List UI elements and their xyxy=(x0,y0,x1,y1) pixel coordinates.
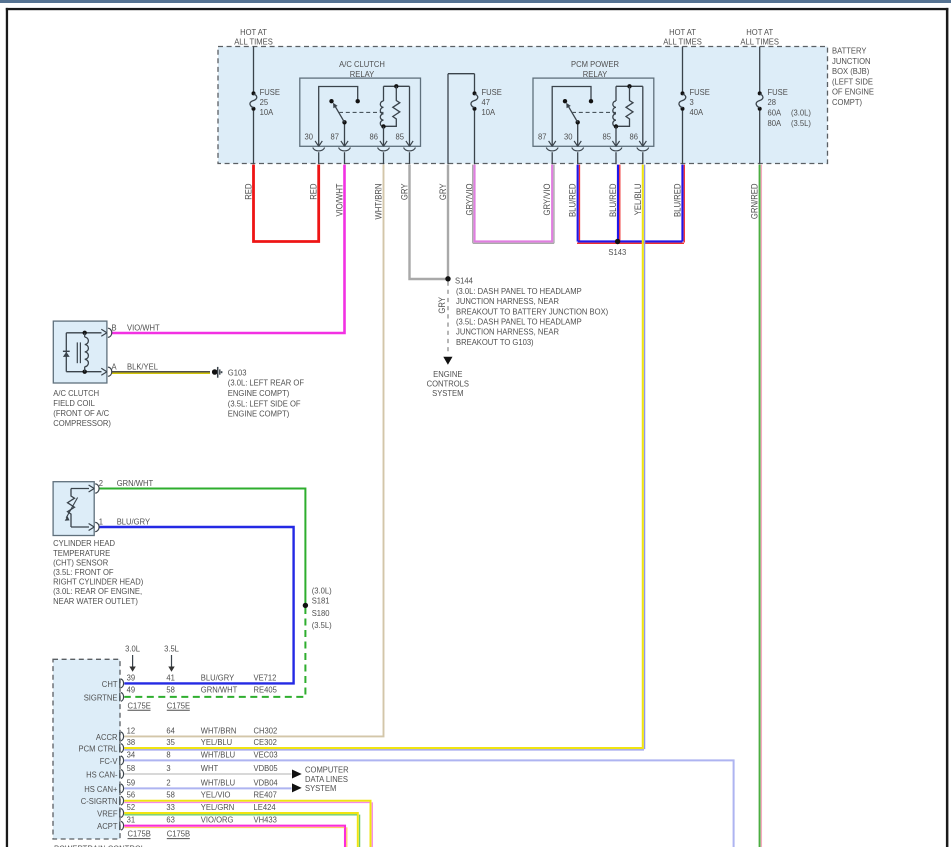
A/C relay pin 85 xyxy=(396,132,416,164)
svg-text:(LEFT SIDE: (LEFT SIDE xyxy=(832,77,873,86)
CHT pin 2 xyxy=(89,479,154,493)
svg-text:47: 47 xyxy=(482,98,491,107)
svg-text:BLU/RED: BLU/RED xyxy=(672,184,683,217)
svg-text:10A: 10A xyxy=(260,108,274,117)
svg-text:S181: S181 xyxy=(312,596,330,605)
wire label VIO/WHT at x=344.5 xyxy=(334,184,345,217)
3.0L / 3.5L column headers xyxy=(125,644,179,671)
svg-text:G103: G103 xyxy=(228,368,247,377)
svg-text:BATTERY: BATTERY xyxy=(832,46,867,55)
wire label RED at x=318.7 xyxy=(308,184,319,200)
svg-text:SYSTEM: SYSTEM xyxy=(432,389,463,398)
wire WHT/BLU: PCM HS CAN+ to computer data lines xyxy=(124,787,291,789)
PCM relay switch (pins 87/30) xyxy=(552,87,593,147)
PCM pin row VREF (52/33 YEL/GRN LE424) xyxy=(97,803,276,819)
svg-text:FUSE: FUSE xyxy=(690,88,710,97)
svg-text:YEL/GRN: YEL/GRN xyxy=(201,803,235,812)
svg-text:RELAY: RELAY xyxy=(350,70,375,79)
svg-text:ENGINE: ENGINE xyxy=(433,370,462,379)
svg-text:BLU/RED: BLU/RED xyxy=(567,184,578,217)
wire GRY: fuse 47 jumper exit down to S144 xyxy=(447,165,449,278)
svg-text:GRY: GRY xyxy=(436,297,447,314)
A/C relay pin 86 xyxy=(370,132,390,164)
svg-text:HOT AT: HOT AT xyxy=(746,28,773,37)
PCM relay mechanical link (dashed) xyxy=(572,111,616,113)
svg-text:CHT: CHT xyxy=(102,680,118,689)
svg-text:PCM POWER: PCM POWER xyxy=(571,60,619,69)
field coil pin A xyxy=(101,362,158,376)
PCM relay pin 86 xyxy=(630,132,649,164)
A/C relay switch (pins 30/87) xyxy=(319,87,360,147)
svg-text:NEAR WATER OUTLET): NEAR WATER OUTLET) xyxy=(53,597,138,606)
svg-text:VIO/WHT: VIO/WHT xyxy=(334,184,345,217)
svg-text:CE302: CE302 xyxy=(254,738,278,747)
svg-text:85: 85 xyxy=(603,132,612,141)
svg-text:HOT AT: HOT AT xyxy=(669,28,696,37)
svg-text:DATA LINES: DATA LINES xyxy=(305,775,348,784)
wire label BLU/RED at x=618 xyxy=(607,184,618,217)
wire GRY dashed: S144 to engine controls system xyxy=(436,282,448,356)
svg-text:25: 25 xyxy=(260,98,269,107)
svg-text:S180: S180 xyxy=(312,609,330,618)
A/C relay mechanical link (dashed) xyxy=(339,111,384,113)
svg-text:58: 58 xyxy=(166,790,175,799)
svg-text:BLK/YEL: BLK/YEL xyxy=(127,362,159,371)
svg-text:RE405: RE405 xyxy=(254,685,278,694)
svg-text:86: 86 xyxy=(370,132,379,141)
svg-text:(3.5L: LEFT SIDE OF: (3.5L: LEFT SIDE OF xyxy=(228,399,301,408)
svg-text:GRN/RED: GRN/RED xyxy=(749,184,760,220)
svg-text:TEMPERATURE: TEMPERATURE xyxy=(53,549,110,558)
svg-text:FUSE: FUSE xyxy=(482,88,502,97)
svg-text:3: 3 xyxy=(690,98,695,107)
wire WHT/BLU: PCM FC-V row down off page xyxy=(124,760,733,847)
wire BLK/YEL: field coil pin A to G103 xyxy=(111,372,210,374)
svg-text:34: 34 xyxy=(127,750,136,759)
PCM pin row HS CAN- (58/3 WHT VDB05) xyxy=(86,764,278,780)
svg-text:JUNCTION HARNESS, NEAR: JUNCTION HARNESS, NEAR xyxy=(456,327,559,336)
wire VIO/ORG: PCM ACPT row down off page xyxy=(124,826,346,847)
PCM relay coil (pins 85/86) xyxy=(613,84,643,146)
node: HOT AT ALL TIMES feed at x=682.5 xyxy=(663,28,702,47)
svg-text:ACPT: ACPT xyxy=(97,822,117,831)
svg-text:58: 58 xyxy=(166,685,175,694)
wire label WHT/BRN at x=383.5 xyxy=(373,184,384,220)
svg-text:28: 28 xyxy=(768,98,777,107)
svg-text:JUNCTION HARNESS, NEAR: JUNCTION HARNESS, NEAR xyxy=(456,297,559,306)
svg-text:VIO/WHT: VIO/WHT xyxy=(127,323,160,332)
svg-text:FUSE: FUSE xyxy=(260,88,280,97)
wire: feed into fuse 25 xyxy=(253,47,255,92)
svg-text:HS CAN-: HS CAN- xyxy=(86,770,118,779)
svg-text:VREF: VREF xyxy=(97,809,117,818)
svg-text:C175B: C175B xyxy=(167,829,190,838)
svg-text:S144: S144 xyxy=(455,276,473,285)
svg-text:COMPT): COMPT) xyxy=(832,98,862,107)
svg-text:C175E: C175E xyxy=(128,701,151,710)
svg-text:VDB05: VDB05 xyxy=(254,764,279,773)
wire RED: fuse 25 to A/C relay pin 30 xyxy=(254,165,319,242)
svg-text:A/C CLUTCH: A/C CLUTCH xyxy=(53,389,99,398)
node S144 xyxy=(445,276,608,347)
wire label GRY/VIO at x=474.5 xyxy=(464,183,475,215)
svg-text:BLU/GRY: BLU/GRY xyxy=(117,517,151,526)
wire label BLU/RED at x=682.5 xyxy=(672,184,683,217)
svg-text:(3.5L): (3.5L) xyxy=(791,119,811,128)
svg-text:GRN/WHT: GRN/WHT xyxy=(201,685,238,694)
svg-text:JUNCTION: JUNCTION xyxy=(832,57,871,66)
svg-text:3.0L: 3.0L xyxy=(125,644,140,653)
wire label YEL/BLU at x=642.8 xyxy=(632,184,643,216)
svg-text:63: 63 xyxy=(166,815,175,824)
svg-text:87: 87 xyxy=(331,132,340,141)
svg-text:3: 3 xyxy=(166,764,171,773)
svg-text:RIGHT CYLINDER HEAD): RIGHT CYLINDER HEAD) xyxy=(53,577,143,586)
wire BLU/RED: PCM relay pin 85 to S143 xyxy=(618,165,620,242)
svg-text:GRY/VIO: GRY/VIO xyxy=(542,183,553,215)
svg-text:2: 2 xyxy=(99,479,104,488)
svg-text:BOX (BJB): BOX (BJB) xyxy=(832,67,870,76)
svg-text:(3.0L: LEFT REAR OF: (3.0L: LEFT REAR OF xyxy=(228,378,304,387)
svg-text:WHT/BRN: WHT/BRN xyxy=(373,184,384,220)
svg-text:VE712: VE712 xyxy=(254,673,277,682)
svg-text:ALL TIMES: ALL TIMES xyxy=(234,37,273,46)
svg-text:(3.0L): (3.0L) xyxy=(791,108,811,117)
svg-text:56: 56 xyxy=(127,790,136,799)
svg-text:ALL TIMES: ALL TIMES xyxy=(740,37,779,46)
svg-text:COMPRESSOR): COMPRESSOR) xyxy=(53,419,111,428)
svg-text:CH302: CH302 xyxy=(254,726,278,735)
svg-text:ALL TIMES: ALL TIMES xyxy=(663,37,702,46)
PCM pin row CHT (39/41 BLU/GRY VE712) xyxy=(102,673,277,689)
svg-text:(FRONT OF A/C: (FRONT OF A/C xyxy=(53,409,109,418)
svg-text:ACCR: ACCR xyxy=(96,733,118,742)
svg-text:35: 35 xyxy=(166,738,175,747)
ground G103 xyxy=(212,367,304,419)
svg-text:(3.5L: DASH PANEL TO HEADLAMP: (3.5L: DASH PANEL TO HEADLAMP xyxy=(456,317,582,326)
svg-text:HOT AT: HOT AT xyxy=(240,28,267,37)
wire: fuse 28 output (inside BJB) xyxy=(759,111,761,165)
PCM pin row SIGRTNE (49/58 GRN/WHT RE405) xyxy=(84,685,278,702)
component: A/C clutch field coil box xyxy=(53,321,107,383)
svg-text:WHT/BLU: WHT/BLU xyxy=(201,778,236,787)
svg-text:39: 39 xyxy=(127,673,136,682)
A/C relay pin 30 xyxy=(305,132,325,164)
svg-text:B: B xyxy=(112,323,117,332)
wire GRN/WHT: CHT sensor pin 2 to S181/S180 xyxy=(99,489,305,605)
svg-text:A: A xyxy=(112,362,118,371)
node: HOT AT ALL TIMES feed at x=759.7 xyxy=(740,28,779,47)
svg-text:GRY: GRY xyxy=(437,183,448,200)
svg-text:WHT/BRN: WHT/BRN xyxy=(201,726,237,735)
svg-text:CYLINDER HEAD: CYLINDER HEAD xyxy=(53,539,115,548)
svg-text:1: 1 xyxy=(99,517,104,526)
wire WHT: PCM HS CAN- to computer data lines xyxy=(124,773,291,775)
relay: PCM POWER RELAY box xyxy=(533,60,654,147)
wire VIO/WHT: A/C relay pin 87 to field coil pin B xyxy=(111,165,344,333)
field coil caption xyxy=(53,389,111,429)
wire label RED at x=253.5 xyxy=(243,184,254,200)
A/C relay coil (pins 86/85) xyxy=(380,84,409,146)
svg-text:30: 30 xyxy=(564,132,573,141)
svg-text:PCM CTRL: PCM CTRL xyxy=(78,744,118,753)
wire label GRY/VIO at x=552.2 xyxy=(542,183,553,215)
svg-text:RE407: RE407 xyxy=(254,790,278,799)
CHT caption xyxy=(53,539,143,606)
PCM pin row PCM CTRL (38/35 YEL/BLU CE302) xyxy=(78,738,277,754)
node S143 xyxy=(608,239,626,257)
wire: feed into fuse 3 xyxy=(682,47,684,92)
svg-text:52: 52 xyxy=(127,803,136,812)
PCM relay pin 87 xyxy=(538,132,558,164)
fuse 28 60A/80A xyxy=(756,88,811,128)
wire BLU/GRY: CHT sensor pin 1 to PCM CHT row xyxy=(99,527,294,683)
svg-text:C-SIGRTN: C-SIGRTN xyxy=(81,797,118,806)
PCM pin row HS CAN+ (59/2 WHT/BLU VDB04) xyxy=(84,778,278,794)
PCM caption (clipped at page bottom) xyxy=(54,844,146,852)
svg-text:10A: 10A xyxy=(482,108,496,117)
svg-text:YEL/VIO: YEL/VIO xyxy=(201,790,231,799)
svg-text:S143: S143 xyxy=(608,248,626,257)
svg-text:59: 59 xyxy=(127,778,136,787)
svg-text:64: 64 xyxy=(166,726,175,735)
BJB label xyxy=(832,46,874,107)
fuse 25 10A xyxy=(250,88,280,117)
svg-text:BREAKOUT TO G103): BREAKOUT TO G103) xyxy=(456,338,534,347)
svg-text:87: 87 xyxy=(538,132,547,141)
svg-text:BLU/RED: BLU/RED xyxy=(607,184,618,217)
svg-text:30: 30 xyxy=(305,132,314,141)
svg-text:31: 31 xyxy=(127,815,136,824)
wire label GRY at x=409.5 xyxy=(399,183,410,200)
svg-text:49: 49 xyxy=(127,685,136,694)
component: CHT sensor box xyxy=(53,482,94,536)
svg-text:BREAKOUT TO BATTERY JUNCTION B: BREAKOUT TO BATTERY JUNCTION BOX) xyxy=(456,307,609,316)
svg-text:(3.0L: DASH PANEL TO HEADLAMP: (3.0L: DASH PANEL TO HEADLAMP xyxy=(456,287,582,296)
svg-text:LE424: LE424 xyxy=(254,803,277,812)
svg-text:VEC03: VEC03 xyxy=(254,750,279,759)
svg-text:OF ENGINE: OF ENGINE xyxy=(832,87,874,96)
svg-text:33: 33 xyxy=(166,803,175,812)
PCM pin row ACCR (12/64 WHT/BRN CH302) xyxy=(96,726,278,742)
wire: jumper from GRY exit up over to fuse 47 xyxy=(448,74,475,165)
wire YEL/BLU: PCM relay pin 86 to PCM CTRL row xyxy=(124,165,644,750)
wire: feed into fuse 28 xyxy=(759,47,761,92)
wire BLU/RED: PCM relay pin 30 to S143 xyxy=(578,165,580,242)
svg-text:85: 85 xyxy=(396,132,405,141)
fuse 47 10A xyxy=(471,88,502,117)
wire GRY: A/C relay pin 85 to S144 xyxy=(410,165,447,279)
svg-text:FC-V: FC-V xyxy=(100,757,118,766)
wire GRN/RED: fuse 28 down off page xyxy=(760,165,762,847)
svg-text:(3.0L): (3.0L) xyxy=(312,586,332,595)
wire BLU/RED: S143 bus horizontal xyxy=(577,242,684,244)
PCM pin row FC-V (34/8 WHT/BLU VEC03) xyxy=(100,750,279,766)
field coil pin B xyxy=(101,323,159,337)
PCM pin row C-SIGRTN (56/58 YEL/VIO RE407) xyxy=(81,790,278,806)
svg-text:C175E: C175E xyxy=(167,701,190,710)
svg-text:(3.5L: FRONT OF: (3.5L: FRONT OF xyxy=(53,568,114,577)
CHT thermistor internal xyxy=(65,489,89,528)
svg-text:RED: RED xyxy=(308,184,319,200)
svg-text:VIO/ORG: VIO/ORG xyxy=(201,815,234,824)
svg-text:GRN/WHT: GRN/WHT xyxy=(117,479,154,488)
svg-text:WHT: WHT xyxy=(201,764,218,773)
wire label GRN/RED at x=759.6 xyxy=(749,184,760,220)
svg-text:8: 8 xyxy=(166,750,171,759)
svg-text:SIGRTNE: SIGRTNE xyxy=(84,693,118,702)
wire: fuse 3 output (inside BJB) xyxy=(682,111,684,165)
svg-text:RED: RED xyxy=(243,184,254,200)
svg-text:C175B: C175B xyxy=(128,829,151,838)
svg-text:FUSE: FUSE xyxy=(768,88,788,97)
A/C relay pin 87 xyxy=(331,132,351,164)
svg-text:GRY: GRY xyxy=(399,183,410,200)
svg-text:BLU/GRY: BLU/GRY xyxy=(201,673,235,682)
wire: fuse 47 output (inside BJB) xyxy=(474,111,476,165)
connector C175B labels xyxy=(128,829,191,838)
svg-text:ENGINE COMPT): ENGINE COMPT) xyxy=(228,389,290,398)
svg-text:58: 58 xyxy=(127,764,136,773)
engine controls system arrow xyxy=(427,357,469,398)
wire GRN/WHT dashed: S180 to PCM SIGRTNE row xyxy=(124,607,305,697)
svg-text:YEL/BLU: YEL/BLU xyxy=(201,738,233,747)
PCM relay pin 30 xyxy=(564,132,584,164)
wire YEL/GRN: PCM VREF row down off page xyxy=(124,813,359,847)
wire: fuse 25 output (inside BJB) xyxy=(253,111,255,165)
connector C175E labels xyxy=(128,701,191,710)
svg-text:12: 12 xyxy=(127,726,136,735)
svg-text:41: 41 xyxy=(166,673,175,682)
component: powertrain control module dashed box xyxy=(53,659,120,839)
fuse 3 40A xyxy=(679,88,710,117)
svg-text:(3.0L: REAR OF ENGINE,: (3.0L: REAR OF ENGINE, xyxy=(53,587,142,596)
svg-text:80A: 80A xyxy=(768,119,782,128)
svg-text:(3.5L): (3.5L) xyxy=(312,621,332,630)
field coil internal circuit xyxy=(63,331,102,374)
wire GRY/VIO: fuse 47 to PCM relay pin 87 xyxy=(473,165,554,244)
PCM relay pin 85 xyxy=(603,132,622,164)
svg-text:RELAY: RELAY xyxy=(583,70,608,79)
svg-text:60A: 60A xyxy=(768,108,782,117)
wire label GRY at x=448 xyxy=(437,183,448,200)
node S181/S180 xyxy=(303,586,332,630)
svg-text:2: 2 xyxy=(166,778,171,787)
svg-text:SYSTEM: SYSTEM xyxy=(305,784,336,793)
battery junction box (BJB) dashed enclosure xyxy=(218,47,828,164)
wire label BLU/RED at x=577.7 xyxy=(567,184,578,217)
svg-text:A/C CLUTCH: A/C CLUTCH xyxy=(339,60,385,69)
svg-text:86: 86 xyxy=(630,132,639,141)
svg-text:3.5L: 3.5L xyxy=(164,644,179,653)
CHT pin 1 xyxy=(89,517,151,531)
PCM pin row ACPT (31/63 VIO/ORG VH433) xyxy=(97,815,277,831)
svg-text:COMPUTER: COMPUTER xyxy=(305,765,349,774)
svg-text:FIELD COIL: FIELD COIL xyxy=(53,399,95,408)
svg-text:HS CAN+: HS CAN+ xyxy=(84,785,118,794)
svg-text:ENGINE COMPT): ENGINE COMPT) xyxy=(228,409,290,418)
svg-text:VH433: VH433 xyxy=(254,815,278,824)
svg-text:YEL/BLU: YEL/BLU xyxy=(632,184,643,216)
svg-text:VDB04: VDB04 xyxy=(254,778,279,787)
svg-text:CONTROLS: CONTROLS xyxy=(427,379,469,388)
svg-text:40A: 40A xyxy=(690,108,704,117)
svg-text:38: 38 xyxy=(127,738,136,747)
svg-text:WHT/BLU: WHT/BLU xyxy=(201,750,236,759)
wire WHT/BRN: A/C relay pin 86 to PCM ACCR row xyxy=(124,165,383,737)
relay: A/C CLUTCH RELAY box xyxy=(300,60,421,147)
computer data lines system arrows xyxy=(292,765,349,793)
node: HOT AT ALL TIMES feed at x=253.5 xyxy=(234,28,273,47)
wire YEL/VIO: PCM C-SIGRTN row down off page xyxy=(124,801,372,847)
wire BLU/RED: fuse 3 to S143 xyxy=(683,165,685,243)
svg-text:(CHT) SENSOR: (CHT) SENSOR xyxy=(53,558,108,567)
